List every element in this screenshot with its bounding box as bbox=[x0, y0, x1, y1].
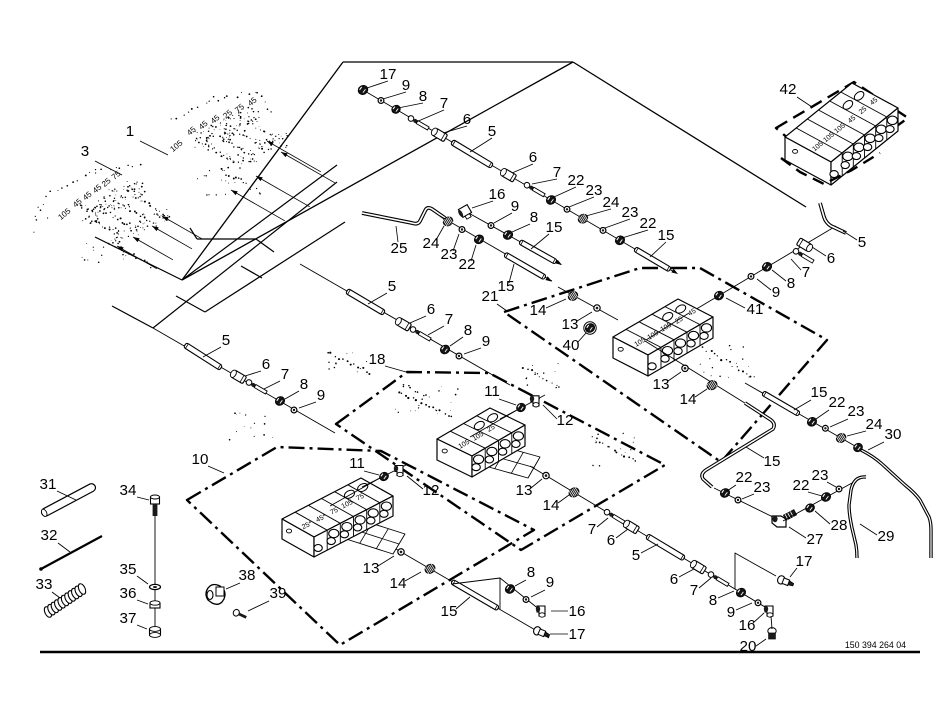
svg-text:9: 9 bbox=[727, 604, 735, 621]
plug 40 bbox=[584, 322, 597, 334]
grid plate behind block 10 bbox=[343, 518, 405, 554]
svg-text:9: 9 bbox=[546, 574, 554, 591]
svg-text:6: 6 bbox=[427, 301, 435, 318]
row2 axis wire bbox=[465, 211, 561, 265]
ghost assembly 3 (dotted manifold) bbox=[33, 164, 170, 269]
washer 9 row2 bbox=[488, 223, 494, 229]
svg-text:5: 5 bbox=[222, 332, 230, 349]
manifold block 18 bbox=[437, 408, 525, 477]
svg-text:13: 13 bbox=[516, 482, 533, 499]
block18 top through line bbox=[470, 410, 517, 437]
frame 42 (dashed outline) bbox=[776, 82, 908, 174]
ferrule 7 row1 bbox=[407, 115, 430, 131]
svg-text:31: 31 bbox=[40, 476, 57, 493]
block10 top through line bbox=[330, 478, 380, 506]
rowV axis wire bbox=[783, 483, 852, 521]
svg-text:22: 22 bbox=[736, 469, 753, 486]
washer 9 row1 bbox=[378, 98, 384, 104]
svg-text:6: 6 bbox=[463, 111, 471, 128]
union 6b rowB bbox=[689, 559, 706, 574]
nut 11 block10 bbox=[378, 471, 390, 483]
arrow row1 bbox=[671, 269, 679, 276]
svg-text:6: 6 bbox=[529, 149, 537, 166]
block21 top through line bbox=[646, 313, 689, 340]
rod 32 bbox=[41, 536, 102, 569]
manifold block 10 bbox=[282, 478, 393, 557]
washer 23 rowU bbox=[735, 497, 741, 503]
nut 22 row1 bbox=[545, 194, 558, 206]
frame 21 (chain outline) bbox=[504, 268, 827, 462]
frame sheet break tick 1 bbox=[256, 239, 274, 252]
frame sheet top edge bbox=[343, 61, 573, 63]
union 6 rowA bbox=[796, 238, 813, 253]
washer 13 row3 bbox=[594, 305, 600, 311]
svg-text:8: 8 bbox=[464, 322, 472, 339]
tube 15 row2 bbox=[519, 240, 557, 265]
svg-text:7: 7 bbox=[553, 164, 561, 181]
row1 labels bbox=[367, 66, 674, 257]
svg-text:13: 13 bbox=[363, 560, 380, 577]
washer 9 rowA bbox=[748, 274, 754, 280]
svg-text:8: 8 bbox=[527, 564, 535, 581]
svg-text:8: 8 bbox=[419, 88, 427, 105]
svg-text:150 394 264 04: 150 394 264 04 bbox=[845, 640, 906, 650]
screw 39 bbox=[232, 608, 248, 620]
nut 22c row1 bbox=[614, 234, 627, 246]
ferrule 7b row1 bbox=[523, 181, 546, 197]
block10 upper axis wire bbox=[362, 464, 408, 487]
nut 14 block21 out bbox=[705, 379, 718, 392]
nipple 17 rowB bbox=[776, 575, 795, 589]
frame lower corner left line bbox=[112, 306, 153, 328]
svg-text:7: 7 bbox=[440, 95, 448, 112]
frame beam edge c bbox=[205, 222, 345, 312]
hose 30 bbox=[861, 450, 931, 558]
rowC axis wire bbox=[396, 549, 549, 638]
svg-text:7: 7 bbox=[588, 521, 596, 538]
svg-text:9: 9 bbox=[402, 77, 410, 94]
row2 labels bbox=[472, 186, 562, 249]
svg-text:23: 23 bbox=[586, 182, 603, 199]
nipple 20 rowB bbox=[768, 628, 776, 639]
svg-text:28: 28 bbox=[831, 517, 848, 534]
svg-text:15: 15 bbox=[441, 603, 458, 620]
rowC labels bbox=[363, 556, 586, 643]
svg-text:23: 23 bbox=[812, 467, 829, 484]
svg-text:13: 13 bbox=[562, 316, 579, 333]
block10 upper labels bbox=[349, 455, 439, 499]
nut 28 bbox=[804, 502, 816, 514]
row3 axis wire bbox=[440, 216, 552, 281]
svg-text:6: 6 bbox=[827, 250, 835, 267]
block21 out labels bbox=[653, 372, 707, 408]
rowB axis wire bbox=[530, 466, 770, 610]
elbow 16 rowB bbox=[764, 606, 773, 617]
svg-text:12: 12 bbox=[423, 482, 440, 499]
svg-text:37: 37 bbox=[120, 610, 137, 627]
svg-text:5: 5 bbox=[488, 123, 496, 140]
svg-text:7: 7 bbox=[281, 366, 289, 383]
arrow row2 bbox=[555, 260, 563, 267]
svg-text:23: 23 bbox=[441, 246, 458, 263]
svg-text:14: 14 bbox=[543, 497, 560, 514]
svg-text:10: 10 bbox=[192, 451, 209, 468]
frame sheet steep left edge bbox=[182, 62, 343, 280]
svg-text:14: 14 bbox=[390, 575, 407, 592]
nut 14 row3 bbox=[566, 290, 579, 303]
row1 axis wire bbox=[363, 90, 676, 273]
nipple 17 rowC bbox=[532, 626, 551, 640]
svg-text:8: 8 bbox=[530, 209, 538, 226]
svg-text:22: 22 bbox=[568, 172, 585, 189]
ferrule 7 row4a bbox=[409, 326, 432, 342]
svg-text:16: 16 bbox=[489, 186, 506, 203]
nut 8 rowC bbox=[504, 583, 517, 595]
washer 9 row4b bbox=[291, 407, 297, 413]
nut 41 rowA bbox=[713, 289, 726, 301]
grid plate behind block 18 bbox=[478, 443, 540, 478]
block18 upper labels bbox=[484, 383, 573, 429]
arrow row3 bbox=[545, 276, 553, 283]
svg-text:15: 15 bbox=[658, 227, 675, 244]
ghost tube inside frame 18 bbox=[398, 391, 452, 417]
svg-text:23: 23 bbox=[848, 403, 865, 420]
nipple 28 threads bbox=[783, 510, 796, 521]
frame 18 (chain outline) bbox=[336, 372, 665, 550]
svg-text:22: 22 bbox=[459, 256, 476, 273]
svg-text:34: 34 bbox=[120, 482, 137, 499]
nut 22b rowV bbox=[820, 491, 833, 503]
washer 9 rowC bbox=[523, 597, 529, 603]
nut 22 rowU bbox=[719, 487, 732, 499]
svg-text:8: 8 bbox=[787, 275, 795, 292]
ghost dots right of block 21 bbox=[702, 346, 755, 377]
nut 14 rowB bbox=[567, 486, 580, 499]
subchain axis rowC bbox=[500, 578, 545, 614]
block18 upper axis wire bbox=[500, 395, 545, 419]
nut 14 rowC bbox=[423, 562, 436, 575]
elbow 12 block18 bbox=[530, 396, 539, 407]
pipe 31 bbox=[40, 482, 97, 517]
tube 15 rowW bbox=[762, 391, 801, 416]
svg-text:13: 13 bbox=[653, 376, 670, 393]
tube 5 rowB bbox=[646, 534, 686, 561]
washer 35 bbox=[150, 584, 161, 589]
svg-text:42: 42 bbox=[780, 81, 797, 98]
washer 13 rowC bbox=[398, 549, 404, 555]
bracket wire rowB bbox=[735, 553, 776, 589]
svg-text:39: 39 bbox=[270, 585, 287, 602]
tube 15 rowC bbox=[451, 579, 500, 610]
tube 5 row1 bbox=[451, 140, 494, 169]
washer 23 rowW bbox=[823, 425, 829, 431]
bracket wire rowC bbox=[452, 578, 500, 609]
svg-text:15: 15 bbox=[546, 219, 563, 236]
svg-text:3: 3 bbox=[81, 143, 89, 160]
nut 37 bbox=[150, 627, 161, 638]
nut 8 row1 bbox=[390, 104, 402, 115]
washer 23 row1 bbox=[564, 206, 570, 212]
svg-text:16: 16 bbox=[739, 617, 756, 634]
washer 23c row1 bbox=[600, 228, 606, 234]
svg-text:21: 21 bbox=[482, 288, 499, 305]
nut 11 block18 bbox=[515, 402, 527, 414]
washer 9 rowB bbox=[755, 600, 761, 606]
ghost dots above frame 21 bbox=[522, 367, 560, 388]
clamp 38 bbox=[206, 585, 225, 605]
row3 labels bbox=[423, 226, 515, 295]
svg-text:6: 6 bbox=[607, 532, 615, 549]
fitting 17 row1 bbox=[356, 84, 369, 97]
svg-text:11: 11 bbox=[349, 455, 365, 472]
rowA axis wire bbox=[688, 226, 836, 314]
frame beam edge b bbox=[182, 165, 337, 280]
rowB labels bbox=[516, 479, 766, 655]
svg-text:22: 22 bbox=[640, 215, 657, 232]
frame 42 lower dashes bbox=[781, 153, 880, 184]
svg-text:23: 23 bbox=[754, 479, 771, 496]
nut 24b rowW bbox=[852, 442, 864, 454]
nut 8 row4a bbox=[439, 343, 452, 355]
svg-text:5: 5 bbox=[632, 547, 640, 564]
frame sheet right edge bbox=[573, 62, 806, 207]
hose 29 bbox=[849, 477, 866, 558]
svg-text:12: 12 bbox=[557, 412, 574, 429]
wire 16-20 rowB bbox=[771, 616, 772, 629]
frame beam edge c hook bbox=[176, 296, 205, 312]
row3b labels bbox=[530, 299, 592, 354]
manifold block 21 bbox=[613, 299, 713, 376]
svg-text:1: 1 bbox=[126, 123, 134, 140]
washer 13 block21 out bbox=[682, 365, 688, 371]
rowA labels bbox=[726, 231, 866, 318]
washer 9 row4a bbox=[456, 353, 462, 359]
tube 15 row3 bbox=[504, 252, 546, 279]
ghost assembly 1 (dotted manifold) bbox=[171, 92, 288, 196]
nut 36 bbox=[150, 601, 160, 608]
union 6 row4b bbox=[229, 369, 247, 384]
bolt 34 axis wire bbox=[154, 497, 156, 636]
svg-text:17: 17 bbox=[796, 553, 813, 570]
nut 8 rowB bbox=[735, 586, 748, 598]
svg-text:5: 5 bbox=[388, 278, 396, 295]
ferrule 7b rowB bbox=[707, 571, 729, 588]
elbow 16 rowC bbox=[536, 606, 545, 617]
manifold block 42 bbox=[785, 83, 898, 185]
svg-text:9: 9 bbox=[772, 284, 780, 301]
nut 8 row2 bbox=[502, 229, 515, 241]
row4b labels bbox=[203, 332, 325, 408]
rowW labels bbox=[794, 384, 882, 436]
frame 10 (chain outline) bbox=[187, 447, 534, 645]
pipe 15 U-shape bbox=[702, 403, 774, 487]
svg-text:6: 6 bbox=[670, 571, 678, 588]
svg-text:22: 22 bbox=[793, 477, 810, 494]
svg-text:14: 14 bbox=[530, 302, 547, 319]
svg-text:25: 25 bbox=[391, 240, 408, 257]
svg-text:33: 33 bbox=[36, 576, 53, 593]
rowC sub labels bbox=[515, 564, 585, 620]
elbow 16 row2 bbox=[457, 205, 473, 222]
svg-text:17: 17 bbox=[569, 626, 586, 643]
washer 23b rowV bbox=[836, 486, 842, 492]
fitting 24 row3 bbox=[441, 215, 454, 228]
frame lower beam edge bbox=[153, 182, 337, 328]
nut 8 row4b bbox=[274, 395, 287, 407]
svg-text:15: 15 bbox=[498, 278, 515, 295]
svg-text:36: 36 bbox=[120, 585, 137, 602]
ghost 1 leader lines bbox=[267, 141, 321, 172]
frame sheet corner step bbox=[197, 238, 256, 240]
ferrule 7 rowB bbox=[603, 508, 625, 525]
elbow tube 5 rowA bbox=[820, 203, 846, 233]
nut 22 rowW bbox=[806, 416, 819, 428]
svg-text:6: 6 bbox=[262, 356, 270, 373]
svg-text:41: 41 bbox=[747, 301, 764, 318]
tube 5 row4a bbox=[346, 289, 386, 316]
svg-text:38: 38 bbox=[239, 567, 256, 584]
block21 through axis bbox=[645, 341, 748, 405]
washer 13 rowB bbox=[543, 472, 549, 478]
row4a axis wire bbox=[300, 264, 510, 385]
svg-text:15: 15 bbox=[764, 453, 781, 470]
ghost 3 value labels bbox=[56, 169, 123, 222]
frame sheet break tick 2 bbox=[241, 266, 262, 278]
svg-text:15: 15 bbox=[811, 384, 828, 401]
union 6 row1 bbox=[430, 127, 448, 142]
svg-text:18: 18 bbox=[369, 351, 386, 368]
svg-text:24: 24 bbox=[603, 194, 620, 211]
svg-text:14: 14 bbox=[680, 391, 697, 408]
ferrule 7 rowA bbox=[792, 247, 814, 264]
svg-text:9: 9 bbox=[511, 198, 519, 215]
rowU axis wire bbox=[714, 488, 783, 522]
elbow 27 bbox=[772, 516, 786, 527]
svg-text:8: 8 bbox=[709, 592, 717, 609]
spring 33 bbox=[43, 583, 87, 619]
svg-text:7: 7 bbox=[802, 264, 810, 281]
row4a labels bbox=[368, 278, 490, 354]
row3b axis wire bbox=[558, 287, 618, 320]
svg-text:23: 23 bbox=[622, 204, 639, 221]
nut 22 row3 bbox=[473, 233, 486, 245]
union 6 row4a bbox=[394, 316, 412, 331]
svg-text:27: 27 bbox=[807, 531, 824, 548]
ghost dots between frames bbox=[229, 412, 273, 440]
union 6b row1 bbox=[499, 167, 517, 182]
svg-text:5: 5 bbox=[858, 234, 866, 251]
svg-text:16: 16 bbox=[569, 603, 586, 620]
svg-text:8: 8 bbox=[300, 376, 308, 393]
svg-text:22: 22 bbox=[829, 394, 846, 411]
elbow 12 block10 bbox=[394, 466, 403, 477]
svg-text:30: 30 bbox=[885, 426, 902, 443]
row4b axis wire bbox=[153, 328, 335, 433]
rowW axis wire bbox=[745, 383, 862, 450]
svg-text:7: 7 bbox=[690, 582, 698, 599]
svg-text:40: 40 bbox=[563, 337, 580, 354]
svg-text:17: 17 bbox=[380, 66, 397, 83]
frame sheet lower-left corner line bbox=[95, 237, 182, 280]
bottom border line bbox=[40, 651, 920, 654]
ferrule 7 row4b bbox=[245, 379, 268, 395]
bolt 34 bbox=[151, 495, 160, 516]
washer 23 row3 bbox=[459, 227, 465, 233]
svg-text:9: 9 bbox=[482, 333, 490, 350]
union 6 rowB bbox=[622, 519, 639, 534]
pipe 25 bbox=[362, 208, 445, 224]
rowUV labels bbox=[727, 467, 847, 548]
svg-text:35: 35 bbox=[120, 561, 137, 578]
nut 8 rowA bbox=[761, 261, 774, 273]
svg-text:11: 11 bbox=[484, 383, 500, 400]
svg-text:29: 29 bbox=[878, 528, 895, 545]
ghost dots inside frame 21 bbox=[592, 436, 636, 462]
ghost 3 leader lines bbox=[162, 216, 202, 239]
fitting 24 row1 bbox=[576, 212, 589, 225]
tube 5 row4b bbox=[183, 343, 222, 371]
svg-text:24: 24 bbox=[866, 416, 883, 433]
tube 15 row1 bbox=[634, 247, 672, 272]
frame sheet left diagonal edge bbox=[182, 62, 573, 280]
svg-text:9: 9 bbox=[317, 387, 325, 404]
ghost tube left of frame 18 bbox=[327, 352, 370, 375]
fitting 24 rowW bbox=[835, 432, 848, 445]
svg-text:7: 7 bbox=[445, 311, 453, 328]
svg-text:32: 32 bbox=[41, 527, 58, 544]
ghost 1 value labels bbox=[168, 95, 259, 154]
